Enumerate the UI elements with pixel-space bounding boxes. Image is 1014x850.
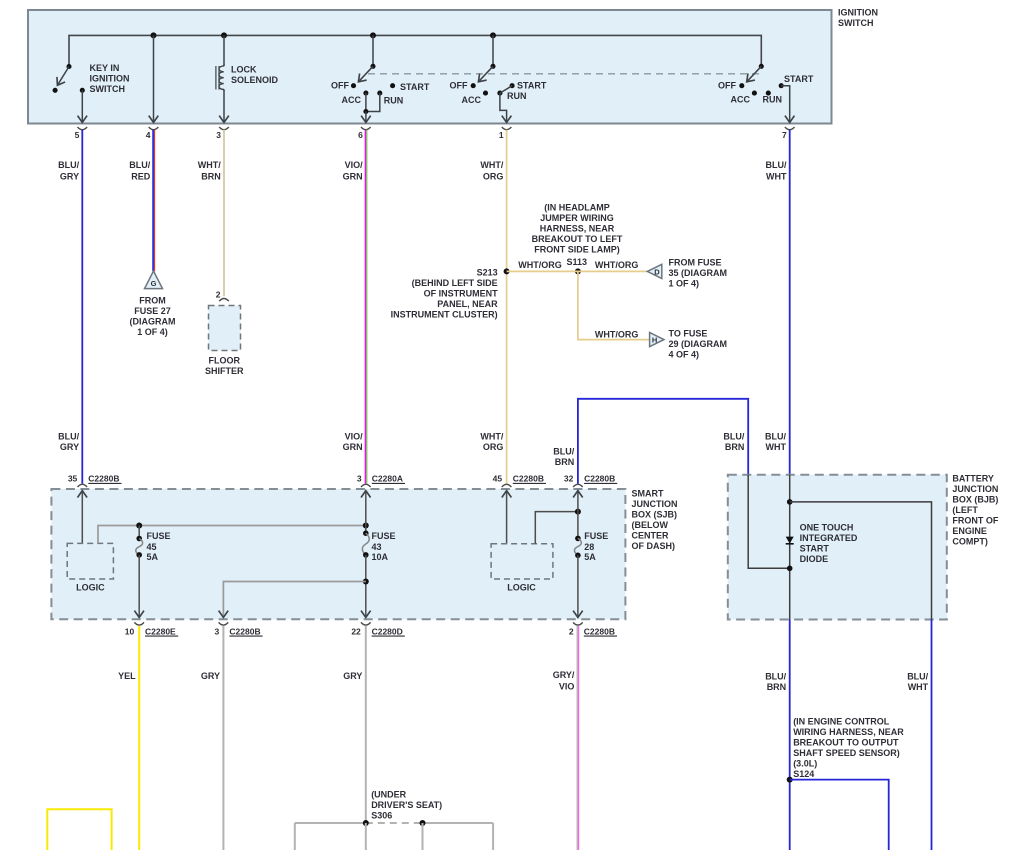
svg-text:C2280B: C2280B [229, 626, 260, 636]
connector arc at SJB pin 35 [78, 484, 88, 487]
svg-text:(IN HEADLAMP: (IN HEADLAMP [544, 202, 610, 212]
svg-text:(UNDER: (UNDER [371, 790, 406, 800]
ignition switch box outline [28, 10, 832, 124]
splice node S124 [787, 777, 793, 783]
svg-text:BLU/: BLU/ [58, 160, 79, 170]
wire: GRY from SJB pin 3 down [222, 626, 224, 850]
svg-text:BRN: BRN [725, 442, 745, 452]
svg-text:BLU/: BLU/ [765, 672, 786, 682]
splice node S113 [567, 257, 588, 274]
mid wire color label WHT/ORG [480, 431, 503, 452]
svg-text:BRN: BRN [555, 457, 575, 467]
svg-text:G: G [151, 279, 157, 288]
svg-text:D: D [654, 267, 660, 276]
svg-text:BOX (BJB): BOX (BJB) [952, 494, 998, 504]
svg-text:JUNCTION: JUNCTION [952, 484, 998, 494]
svg-text:7: 7 [782, 130, 787, 140]
node: bus junction at fuse 45 [136, 523, 142, 529]
svg-text:FUSE 27: FUSE 27 [134, 306, 171, 316]
svg-text:WHT/: WHT/ [480, 431, 503, 441]
SJB internal: logic module 2 [491, 544, 553, 593]
svg-text:29 (DIAGRAM: 29 (DIAGRAM [669, 339, 728, 349]
wire: BLU/BRN from BJB down to S124 and beyond [789, 620, 791, 850]
svg-text:JUNCTION: JUNCTION [632, 499, 678, 509]
battery junction box outline [728, 475, 947, 620]
svg-text:START: START [800, 544, 830, 554]
svg-text:6: 6 [358, 130, 363, 140]
svg-text:DIODE: DIODE [800, 554, 829, 564]
svg-text:C2280B: C2280B [584, 474, 615, 484]
svg-text:DRIVER'S SEAT): DRIVER'S SEAT) [371, 800, 442, 810]
connector arc at ignition pin 3 [219, 127, 229, 130]
svg-text:BLU/: BLU/ [723, 431, 744, 441]
wire: YEL from SJB pin 10 down [138, 626, 140, 850]
label: from fuse 35 [669, 258, 728, 289]
svg-text:1 OF 4): 1 OF 4) [137, 327, 168, 337]
svg-text:KEY IN: KEY IN [90, 63, 120, 73]
ignition switch box label [838, 8, 878, 29]
svg-text:2: 2 [216, 289, 221, 299]
svg-text:GRY: GRY [60, 442, 79, 452]
SJB bottom connector label 3 C2280B [214, 626, 262, 636]
svg-text:ACC: ACC [342, 95, 362, 105]
svg-text:BLU/: BLU/ [766, 160, 787, 170]
connector arc at SJB pin 3 exit [219, 622, 229, 625]
SJB internal: pin 32 entry arrow and fuse F28 line [574, 491, 581, 618]
wire color label WHT/ORG (pin 1) [480, 160, 503, 182]
svg-text:3: 3 [214, 626, 219, 636]
wire color label BLU/WHT (BJB feed) [765, 431, 786, 452]
svg-text:ACC: ACC [462, 95, 482, 105]
fuse F45 label [147, 531, 171, 562]
svg-text:H: H [652, 336, 657, 345]
svg-text:WHT: WHT [908, 682, 929, 692]
smart junction box label [632, 489, 678, 552]
SJB internal: bus from logic 1 to fuses 45/43 [98, 526, 366, 544]
SJB bottom connector label 22 C2280D [351, 626, 404, 636]
svg-text:45: 45 [147, 542, 157, 552]
smart junction box outline [51, 489, 625, 619]
svg-text:START: START [517, 80, 547, 90]
svg-text:START: START [400, 82, 430, 92]
svg-text:S213: S213 [477, 267, 498, 277]
svg-text:WHT: WHT [766, 442, 787, 452]
svg-text:GRY: GRY [343, 671, 362, 681]
wire: S306 right drop [492, 823, 494, 850]
SJB top connector label 45 C2280B [493, 474, 546, 484]
switch SW3: ignition switch wafer for pin 1 (RUN/START) [471, 35, 515, 122]
connector G triangle (from fuse 27) [145, 271, 163, 289]
svg-text:5A: 5A [147, 552, 159, 562]
svg-text:VIO/: VIO/ [345, 431, 364, 441]
svg-text:RUN: RUN [763, 94, 783, 104]
connector arc at SJB pin 45 [502, 484, 512, 487]
svg-text:LOGIC: LOGIC [507, 583, 536, 593]
wire color label BLU/BRN (BJB feed) [723, 431, 744, 452]
SJB top connector label 35 C2280B [68, 474, 122, 484]
svg-text:LOGIC: LOGIC [76, 583, 105, 593]
svg-text:4 OF 4): 4 OF 4) [669, 350, 700, 360]
svg-text:HARNESS, NEAR: HARNESS, NEAR [540, 223, 615, 233]
svg-text:WIRING HARNESS, NEAR: WIRING HARNESS, NEAR [793, 727, 904, 737]
switch SW2: ignition switch wafer for pin 6 (ACC/RUN) [351, 35, 395, 122]
fuse F28 label [584, 531, 608, 562]
SJB internal: pin 45 entry arrow down to logic 2 [506, 491, 508, 544]
SJB internal: logic 2 link to pin 32 line [535, 512, 578, 544]
svg-text:FUSE: FUSE [372, 531, 396, 541]
svg-text:(3.0L): (3.0L) [793, 759, 817, 769]
BJB internal: main line from BLU/WHT entry through diode [789, 475, 791, 620]
wire: BLU/BRN from SJB pin 32 up and over to BJB [578, 399, 748, 484]
wire color label BLU/RED (pin 4) [129, 160, 150, 182]
SJB internal: pin 3 entry arrow and fuse F43 line [362, 491, 369, 618]
switch SW2 position labels [331, 81, 430, 106]
wire: S306 center-right drop [422, 823, 424, 850]
SJB internal: logic module 1 [67, 543, 113, 592]
svg-text:BREAKOUT TO LEFT: BREAKOUT TO LEFT [532, 234, 623, 244]
node: bus2 junction on fuse 43 line [363, 579, 369, 585]
svg-text:BOX (SJB): BOX (SJB) [632, 510, 678, 520]
connector arc at floor shifter pin 2 [219, 299, 229, 302]
svg-text:BLU/: BLU/ [765, 431, 786, 441]
BJB internal: branch to BLU/WHT output [790, 502, 932, 620]
wire: BLU/WHT from BJB down to page bottom [931, 620, 933, 850]
floor shifter component box [209, 306, 241, 351]
svg-text:GRY: GRY [60, 172, 79, 182]
svg-text:3: 3 [357, 474, 362, 484]
svg-text:SWITCH: SWITCH [90, 84, 126, 94]
svg-text:3: 3 [216, 130, 221, 140]
wire: BLU/GRY from ignition pin 5 to SJB pin 35 [81, 130, 83, 484]
svg-text:WHT: WHT [766, 172, 787, 182]
node: BJB junction of BLU/BRN with diode line [787, 566, 793, 572]
svg-text:5A: 5A [584, 552, 596, 562]
svg-text:(BELOW: (BELOW [632, 520, 669, 530]
svg-text:WHT/: WHT/ [480, 160, 503, 170]
svg-text:OFF: OFF [331, 81, 349, 91]
svg-text:BRN: BRN [201, 172, 221, 182]
svg-text:OF DASH): OF DASH) [632, 541, 676, 551]
svg-text:BLU/: BLU/ [58, 431, 79, 441]
wire: WHT/ORG branch S113 down to connector H [578, 271, 650, 339]
switch SW4 position labels [718, 74, 814, 105]
wire: GRY from SJB pin 22 down to S306 [365, 626, 367, 823]
svg-text:FRONT OF: FRONT OF [952, 515, 998, 525]
connector arc at ignition pin 6 [361, 127, 371, 130]
wire color label YEL [118, 671, 136, 681]
svg-text:5: 5 [75, 130, 80, 140]
svg-text:BLU/: BLU/ [907, 672, 928, 682]
mid wire color label BLU/GRY [58, 431, 79, 452]
svg-text:(BEHIND LEFT SIDE: (BEHIND LEFT SIDE [412, 278, 498, 288]
svg-text:RUN: RUN [384, 95, 404, 105]
dashed detent line inside ignition switch [368, 73, 760, 75]
connector arc at SJB pin 2 exit [573, 622, 583, 625]
wire: pin 4 drop from bus [153, 35, 155, 122]
svg-text:CENTER: CENTER [632, 531, 670, 541]
wire color label BLU/BRN (SJB pin 32) [553, 446, 574, 467]
svg-text:INSTRUMENT CLUSTER): INSTRUMENT CLUSTER) [391, 309, 498, 319]
wire: WHT/ORG from ignition pin 1 through S213 to SJB pin 45 [506, 130, 508, 484]
svg-text:10: 10 [125, 626, 135, 636]
svg-text:IGNITION: IGNITION [838, 8, 878, 18]
svg-text:JUMPER WIRING: JUMPER WIRING [540, 213, 614, 223]
svg-text:4: 4 [146, 130, 151, 140]
svg-text:YEL: YEL [118, 671, 136, 681]
label: to fuse 29 [669, 329, 728, 360]
diode D1: one touch integrated start diode [786, 537, 794, 544]
svg-text:BATTERY: BATTERY [952, 473, 994, 483]
svg-text:RED: RED [131, 172, 151, 182]
fuse F43 label [372, 531, 396, 562]
connector arc at SJB pin 22 exit [361, 622, 371, 625]
svg-text:C2280E: C2280E [145, 626, 176, 636]
svg-text:GRY/: GRY/ [553, 670, 575, 680]
wire label WHT/ORG (branch to H) [595, 329, 639, 339]
svg-text:C2280D: C2280D [372, 626, 403, 636]
wire color label GRY (pin 22) [343, 671, 362, 681]
label: from fuse 27 [130, 295, 176, 337]
svg-text:OF INSTRUMENT: OF INSTRUMENT [424, 288, 498, 298]
wire: BLU/BRN branch from S124 [790, 780, 889, 850]
svg-text:ACC: ACC [731, 94, 751, 104]
label: S306 location note [371, 790, 442, 821]
label: S124 location note [793, 717, 904, 780]
svg-text:1: 1 [499, 130, 504, 140]
wire: VIO/GRN from ignition pin 6 to SJB pin 3 [365, 130, 366, 484]
svg-text:(DIAGRAM: (DIAGRAM [130, 316, 176, 326]
wire: WHT/ORG jumper S213 to S113 to connector D [507, 270, 649, 272]
SJB bottom connector label 2 C2280B [569, 626, 617, 636]
svg-text:S306: S306 [371, 811, 392, 821]
mid wire color label VIO/GRN [343, 431, 363, 452]
svg-text:BLU/: BLU/ [129, 160, 150, 170]
wire color label BLU/WHT (pin 7) [766, 160, 787, 182]
connector H triangle (to fuse 29) [650, 333, 664, 347]
SJB top connector label 3 C2280A [357, 474, 405, 484]
BJB internal: BLU/BRN entry drop to diode cathode [748, 475, 790, 569]
wire: S306 center-left drop [365, 823, 367, 850]
svg-text:SHAFT SPEED SENSOR): SHAFT SPEED SENSOR) [793, 748, 900, 758]
diode label [800, 523, 858, 565]
node: bus junction to ACC/RUN switch 1 [370, 32, 376, 38]
wire color label VIO/GRN (pin 6) [343, 160, 363, 182]
connector arc at SJB pin 32 [573, 484, 583, 487]
svg-text:45: 45 [493, 474, 503, 484]
floor shifter pin 2 number [216, 289, 221, 299]
wire color label GRY (pin 3) [201, 671, 220, 681]
lock solenoid label [231, 65, 279, 86]
svg-text:32: 32 [564, 474, 574, 484]
svg-text:(LEFT: (LEFT [952, 505, 978, 515]
wire: GRY/VIO from SJB pin 2 down [577, 626, 578, 850]
node: bus junction to pin 4 [151, 32, 157, 38]
svg-text:BRN: BRN [767, 682, 787, 692]
component box (yellow, partially visible bottom left) [47, 809, 111, 850]
svg-text:FUSE: FUSE [584, 531, 608, 541]
label: S213 location note [391, 278, 498, 320]
svg-text:OFF: OFF [450, 81, 468, 91]
wire color label BLU/BRN (below BJB) [765, 672, 786, 693]
connector arc at ignition pin 5 [78, 127, 88, 130]
connector arc at ignition pin 1 [502, 127, 512, 130]
SJB top connector label 32 C2280B [564, 474, 617, 484]
svg-text:1 OF 4): 1 OF 4) [669, 279, 700, 289]
key in ignition switch label [90, 63, 130, 94]
svg-text:2: 2 [569, 626, 574, 636]
svg-text:SOLENOID: SOLENOID [231, 75, 279, 85]
svg-text:FRONT SIDE LAMP): FRONT SIDE LAMP) [534, 244, 620, 254]
battery junction box label [952, 473, 998, 546]
switch SW1: key-in ignition switch blade [53, 64, 72, 93]
svg-text:10A: 10A [372, 552, 389, 562]
svg-text:IGNITION: IGNITION [90, 74, 130, 84]
wire: S306 left drop [294, 823, 296, 850]
label: S113 location note (headlamp jumper harness) [532, 202, 623, 254]
svg-text:(IN ENGINE CONTROL: (IN ENGINE CONTROL [793, 717, 890, 727]
connector arc at ignition pin 7 [785, 127, 795, 130]
svg-text:FLOOR: FLOOR [209, 356, 241, 366]
svg-text:GRN: GRN [343, 442, 363, 452]
key-in ignition switch output contact and wire to pin 5 [80, 88, 85, 123]
node: junction on pin 32 line [575, 509, 581, 515]
lock solenoid L1 [216, 35, 224, 122]
node: S306 junction left [363, 820, 369, 826]
svg-text:RUN: RUN [507, 91, 527, 101]
svg-text:SWITCH: SWITCH [838, 18, 874, 28]
svg-text:C2280B: C2280B [584, 626, 615, 636]
svg-text:WHT/ORG: WHT/ORG [595, 329, 639, 339]
svg-text:43: 43 [372, 542, 382, 552]
svg-text:22: 22 [351, 626, 361, 636]
switch SW4: ignition switch wafer for pin 7 (START) [739, 64, 789, 123]
svg-text:S113: S113 [567, 257, 588, 267]
wire color label WHT/BRN (pin 3) [198, 160, 221, 182]
svg-text:ORG: ORG [483, 442, 504, 452]
svg-text:ENGINE: ENGINE [952, 526, 987, 536]
svg-text:GRY: GRY [201, 671, 220, 681]
svg-text:C2280A: C2280A [372, 474, 403, 484]
svg-text:LOCK: LOCK [231, 65, 257, 75]
node: BJB junction to output branch [787, 499, 793, 505]
switch SW3 position labels [450, 80, 547, 105]
svg-text:35: 35 [68, 474, 78, 484]
node: bus1 junction on fuse 43 line [363, 523, 369, 529]
floor shifter label [205, 356, 244, 377]
wire color label GRY/VIO [553, 670, 575, 691]
svg-text:TO FUSE: TO FUSE [669, 329, 708, 339]
svg-text:C2280B: C2280B [513, 474, 544, 484]
connector arc at ignition pin 4 [149, 127, 159, 130]
svg-text:S124: S124 [793, 769, 814, 779]
wire color label BLU/WHT (below BJB) [907, 672, 928, 693]
svg-text:WHT/ORG: WHT/ORG [518, 260, 562, 270]
ignition pin numbers [75, 130, 787, 140]
svg-text:GRN: GRN [343, 172, 363, 182]
svg-text:OFF: OFF [718, 81, 736, 91]
wire label WHT/ORG (S213-S113) [518, 260, 562, 270]
svg-text:FROM FUSE: FROM FUSE [669, 258, 722, 268]
svg-text:SMART: SMART [632, 489, 664, 499]
svg-text:ORG: ORG [483, 172, 504, 182]
wire color label BLU/GRY (pin 5) [58, 160, 79, 182]
svg-text:C2280B: C2280B [88, 474, 119, 484]
svg-text:WHT/: WHT/ [198, 160, 221, 170]
node: bus junction to lock solenoid [221, 32, 227, 38]
node: bus junction to ACC/RUN switch 2 [490, 32, 496, 38]
svg-text:ONE TOUCH: ONE TOUCH [800, 523, 854, 533]
svg-text:FUSE: FUSE [147, 531, 171, 541]
svg-text:PANEL, NEAR: PANEL, NEAR [437, 299, 498, 309]
wire: BLU/RED from ignition pin 4 to connector G [153, 130, 155, 271]
svg-text:SHIFTER: SHIFTER [205, 366, 244, 376]
SJB internal: pin 35 entry arrow down to logic [81, 491, 83, 544]
SJB bottom connector label 10 C2280E [125, 626, 178, 636]
splice S306 ground bus [295, 822, 493, 824]
svg-text:35 (DIAGRAM: 35 (DIAGRAM [669, 268, 728, 278]
wire: internal supply bus of ignition switch [69, 35, 761, 66]
svg-text:WHT/ORG: WHT/ORG [595, 260, 639, 270]
connector arc at SJB pin 10 exit [134, 622, 144, 625]
svg-text:VIO/: VIO/ [345, 160, 364, 170]
svg-text:BREAKOUT TO OUTPUT: BREAKOUT TO OUTPUT [793, 738, 899, 748]
splice node S213 [477, 267, 510, 277]
node: S306 junction right [420, 820, 426, 826]
SJB internal: bus2 from fuse 43 to pin 3 C2280B exit [223, 582, 365, 618]
svg-text:COMPT): COMPT) [952, 536, 988, 546]
fuse F45 (45 5A) [136, 526, 143, 618]
svg-text:BLU/: BLU/ [553, 446, 574, 456]
svg-text:FROM: FROM [139, 295, 166, 305]
wire: BLU/WHT from ignition pin 7 to BJB [789, 130, 791, 475]
svg-text:28: 28 [584, 542, 594, 552]
wire label WHT/ORG (S113-D) [595, 260, 639, 270]
svg-text:START: START [784, 74, 814, 84]
svg-text:VIO: VIO [559, 681, 575, 691]
connector arc at SJB pin 3 (C2280A) [361, 484, 371, 487]
connector D triangle (to fuse 35) [647, 264, 662, 278]
svg-text:INTEGRATED: INTEGRATED [800, 533, 858, 543]
wire: WHT/BRN from ignition pin 3 to floor shifter [223, 130, 225, 296]
